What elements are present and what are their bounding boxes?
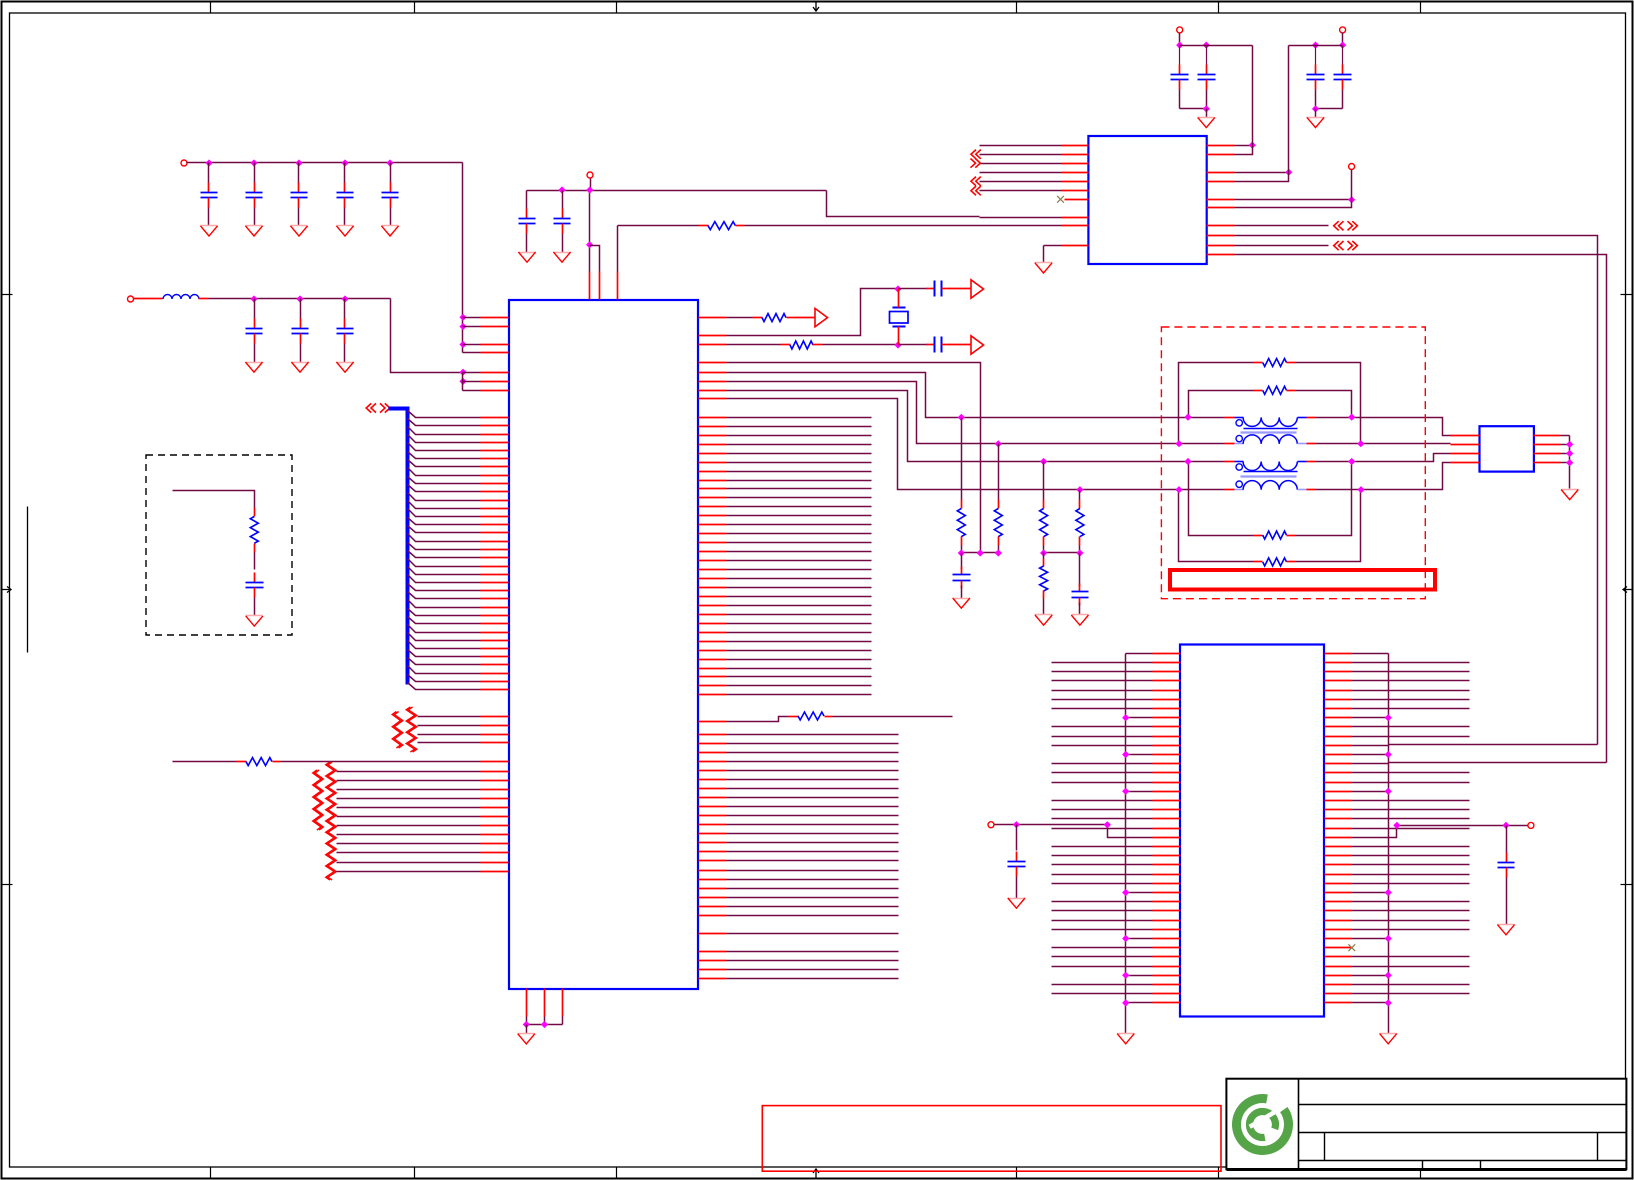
wire U1 right data bit 20 (699, 596, 872, 598)
ground below U1 (518, 1034, 535, 1044)
capacitor C2 (246, 183, 263, 208)
ground below C3 (290, 226, 307, 237)
resistor R_ser (789, 712, 833, 720)
wire cap pair2 bottom (1316, 90, 1343, 109)
U3 right pin row 38 (rail) (1325, 999, 1392, 1006)
wire RC input (173, 491, 255, 508)
U3 left pin row 1 (1052, 662, 1181, 664)
U1 right pin with series R (699, 717, 789, 722)
U3 right pin row 28 (1325, 910, 1470, 912)
wire U1 right data bit 9 (699, 497, 872, 499)
wire U1 right low bit 1 (699, 743, 899, 745)
wire U1 right data bit 27 (699, 659, 872, 661)
U2 right pin 8 long (1207, 236, 1598, 745)
junction on VDD2 rail at C8 (341, 295, 348, 302)
U3 right pin row 27 (1325, 901, 1470, 903)
U1 left pin y862 (term C) (337, 862, 509, 864)
wire U1 right low bit 7 (699, 797, 899, 799)
ground below J1 rail (1561, 490, 1578, 500)
U3 left pin row 28 (1052, 910, 1181, 912)
wire bus bit 12 to U1 pin (408, 509, 509, 517)
U2 left pin y163 (980, 163, 1089, 165)
wire C1 bottom leg (208, 208, 210, 226)
junction R_b4 left (1175, 486, 1182, 493)
U2 left pin y145 (980, 145, 1089, 147)
ground below C8 (518, 252, 535, 262)
U3 right pin row 33 (1325, 956, 1470, 958)
U1 top pin AVDD1 vertical (589, 191, 591, 300)
logo (green) (1236, 1099, 1288, 1151)
wire bus bit 10 to U1 pin (408, 493, 509, 501)
wire U1 right data bit 28 (699, 668, 872, 670)
U3 right pin row 34 (1325, 966, 1470, 968)
U2 left pin GND (1044, 246, 1089, 263)
U3 left pin row 18 (1052, 818, 1181, 820)
junction cap pair2 bottom (1312, 105, 1319, 112)
termination zigzag column C2 (326, 762, 337, 880)
junction R_b3 left (1184, 458, 1191, 465)
U1 left pin y743 (term A) (418, 742, 509, 744)
wire U1 right data bit 8 (699, 488, 872, 490)
junction U2 r3 (1285, 169, 1292, 176)
wire C1 top leg (208, 163, 210, 183)
wire AVDD terminal leg (590, 179, 592, 191)
wire crystal line to U2 (745, 225, 980, 227)
ground below C_sn (246, 616, 263, 627)
capacitor C_p1a (1171, 46, 1189, 90)
signal arrow CLKOUT (815, 308, 828, 326)
U2 right pin 9 (1207, 245, 1329, 247)
wire U1 right data bit 5 (699, 462, 872, 464)
U3 right pin row 8 (1325, 726, 1470, 728)
capacitor C_sn (246, 573, 264, 598)
wire U1 right data bit 24 (699, 632, 872, 634)
wire bus bit 13 to U1 pin (408, 518, 509, 525)
junction U3 left power cap (1013, 821, 1020, 828)
wire U1 right low bit 9 (699, 815, 899, 817)
wire U3 left power (995, 824, 1108, 826)
wire U1 right low bit 10 (699, 824, 899, 826)
junction XI node (894, 341, 901, 348)
regulator IC U2 body (1088, 136, 1206, 264)
U1 right pin TXP route (699, 373, 1225, 418)
U1 left pin y807 (term C) (337, 807, 509, 809)
wire bus bit 33 to U1 pin (408, 683, 509, 690)
capacitor C8 (519, 209, 536, 234)
U3 left pin row 27 (1052, 901, 1181, 903)
junction join t5 (1076, 549, 1083, 556)
wire bus bit 4 to U1 pin (408, 443, 509, 451)
capacitor C_l (1008, 852, 1026, 877)
U3 left pin row 30 (1052, 929, 1181, 931)
wire U1 right low bit 18 (699, 897, 899, 899)
wire C9 bottom leg (562, 234, 564, 253)
wire C2 top leg (254, 163, 256, 183)
resistor R_clk (753, 314, 795, 322)
U3 right rail (1388, 654, 1390, 1007)
U3 left pin row 10 (1052, 745, 1181, 747)
wire U1 right data bit 11 (699, 515, 872, 517)
U3 right pin row 29 (1325, 920, 1470, 922)
U1 left pin y771 (term C) (337, 771, 509, 773)
U3 right pin row 36 (1325, 984, 1470, 986)
U3 left pin row 35 (rail) (1122, 972, 1180, 979)
U3 right pin row 3 (1325, 680, 1470, 682)
border center marker arrow bottom (813, 1169, 819, 1178)
termination zigzag column A2 (406, 707, 417, 752)
U2 left pin y190 (980, 190, 1089, 192)
node U3 VDD left terminal (988, 822, 994, 828)
transformer T2 primary winding (1225, 462, 1316, 471)
J1 left pin y444 (1451, 444, 1480, 446)
U1 left pin y825 (term C) (337, 825, 509, 827)
junction U2 r1 (1249, 142, 1256, 149)
U3 right pin row 20 (power jog) (1325, 826, 1397, 838)
U3 left pin row 20 (power jog) (1108, 826, 1181, 838)
resistor R_x2 (618, 222, 745, 230)
wire L1 to caps rail (209, 298, 391, 300)
J1 right pin y435 (1534, 435, 1570, 437)
wire bus bit 0 to U1 pin (408, 411, 509, 418)
U3 right rail ground (1380, 1007, 1397, 1044)
capacitor C_t2 (1072, 584, 1089, 606)
junction TXN/R2t (995, 440, 1002, 447)
U3 right pin row 1 (1325, 662, 1470, 664)
wire VDD1 rail (187, 162, 463, 164)
termination zigzag column C1 (313, 770, 324, 830)
U1 right pin RXN route (699, 399, 1225, 490)
junction U1 gnd link 2 (541, 1021, 548, 1028)
wire bus bit 25 to U1 pin (408, 617, 509, 624)
wire U1 ground link (527, 1024, 563, 1026)
wire U1 right low bit 12 (699, 842, 899, 844)
ground below C6 (245, 362, 262, 372)
transformer T1 secondary winding (1225, 435, 1316, 444)
U1 left pin y725 (term A) (418, 725, 509, 727)
wire U1 right low bit 19 (699, 906, 899, 908)
wire cap pair2 rail (1289, 46, 1343, 173)
resistor R_t5 (vertical) (1040, 553, 1048, 599)
junction R_b2 right (1348, 414, 1355, 421)
bus entry off-page connector (366, 403, 390, 412)
wire bus bit 3 to U1 pin (408, 435, 509, 443)
junction AVDD rail at terminal (586, 186, 593, 193)
title block (1226, 1079, 1626, 1170)
wire R_clk to arrow (795, 317, 815, 319)
capacitor C_p2b (1334, 46, 1352, 90)
wire C8 bottom leg (344, 344, 346, 363)
wire bus bit 22 to U1 pin (408, 592, 509, 599)
junction join t4 (1040, 549, 1047, 556)
wire R_t5 to gnd (1043, 599, 1045, 615)
capacitor C_x2 (927, 337, 950, 353)
junction R_b3 right (1348, 458, 1355, 465)
U1 right pin CT route (699, 363, 981, 553)
wire U1 gnd drop (526, 1025, 528, 1034)
junction RXN/R4t (1076, 486, 1083, 493)
U2 left pin NC (1065, 199, 1089, 201)
wire U1 right low bit 5 (699, 779, 899, 781)
junction cap pair2 b (1339, 42, 1346, 49)
U3 left pin row 3 (1052, 680, 1181, 682)
U1 right pin XI2 (699, 344, 781, 346)
wire RXP right of T2 (1316, 454, 1451, 462)
ground below C8 (336, 362, 353, 372)
wire U3 C_r bottom leg (1506, 878, 1508, 925)
junction U1 gnd link 1 (523, 1021, 530, 1028)
wire bus bit 7 to U1 pin (408, 468, 509, 476)
wire U1 right low bit 22 (699, 933, 899, 935)
U1 left pin y798 (term C) (337, 798, 509, 800)
U3 left pin row 4 (1052, 690, 1181, 692)
resistor R_t4 (vertical) (1076, 490, 1084, 546)
ground below U2 left (1035, 263, 1053, 274)
off-page chevron U2 row2 (971, 150, 981, 159)
wire U1 right low bit 27 (699, 978, 899, 980)
U1 left pin y734 (term A) (418, 734, 509, 736)
resistor R_t1 (vertical) (957, 418, 965, 546)
U1 left pin y390 (463, 390, 509, 392)
U1 right pin CLKOUT (699, 317, 753, 319)
U2 right pin 2 (1207, 146, 1253, 155)
U3 right pin row 37 (1325, 993, 1470, 995)
junction on VDD2 rail at C6 (250, 295, 257, 302)
U3 right pin row 11 (rail) (1325, 751, 1392, 758)
wire C4 top leg (344, 163, 346, 183)
transformer T1 core (1241, 429, 1298, 433)
wire U3 C_r top leg (1506, 826, 1508, 853)
capacitor C_p1b (1198, 46, 1216, 90)
wire bus bit 28 to U1 pin (408, 641, 509, 649)
capacitor C_p2a (1307, 46, 1325, 90)
resistor R_t3 (vertical) (1040, 462, 1048, 546)
junction cap pair1 b (1203, 42, 1210, 49)
U3 left pin row 13 (1052, 772, 1181, 774)
U3 right pin row 31 (rail) (1325, 935, 1392, 942)
wire U1 right low bit 16 (699, 879, 899, 881)
ground below C_r (1497, 925, 1514, 935)
ground below C_t (953, 598, 970, 608)
wire U1 right data bit 29 (699, 676, 872, 678)
wire U1 right low bit 25 (699, 960, 899, 962)
wire bus bit 5 to U1 pin (408, 452, 509, 459)
junction AVDD rail at C8 (558, 186, 565, 193)
wire bus bit 14 to U1 pin (408, 526, 509, 533)
junction R_b4 right (1357, 486, 1364, 493)
capacitor C3 (291, 183, 308, 208)
wire U1 right low bit 14 (699, 860, 899, 862)
wire U1 right data bit 22 (699, 614, 872, 616)
U3 left pin row 12 (1052, 763, 1181, 765)
wire U1 right data bit 30 (699, 685, 872, 687)
J1 left pin y453 (1451, 453, 1480, 455)
U3 left pin row 32 (1052, 947, 1181, 949)
U3 right pin row 18 (1325, 818, 1470, 820)
annotation dashed box (RC snubber) (146, 455, 292, 635)
wire J1 shield rail (1569, 436, 1571, 489)
U2 right pin 10 long (1207, 255, 1607, 763)
U3 right pin row 35 (rail) (1325, 972, 1392, 979)
ground below C5 (381, 226, 398, 237)
wire U1 right low bit 4 (699, 770, 899, 772)
wire group B vertical (462, 373, 464, 391)
wire Rt3/Rt4 join (1044, 546, 1080, 553)
highlight red rectangle (1170, 570, 1435, 590)
wire U1 right data bit 6 (699, 471, 872, 473)
wire pair1 gnd drop (1206, 109, 1208, 118)
wire C_t to gnd (961, 586, 963, 599)
junction U3 left power jog (1104, 821, 1111, 828)
wire U1 right low bit 24 (699, 951, 899, 953)
U1 left pin y352 (463, 352, 509, 354)
wire U1 right data bit 4 (699, 453, 872, 455)
wire bus bit 9 to U1 pin (408, 485, 509, 492)
ground below C_l (1008, 898, 1026, 908)
U1 left pin y834 (term C) (337, 834, 509, 836)
ground below C4 (336, 226, 353, 237)
wire bus bit 18 to U1 pin (408, 559, 509, 567)
wire U1 right low bit 15 (699, 870, 899, 872)
junction join t1 (958, 549, 965, 556)
U1 bottom pin GND2 (544, 989, 546, 1025)
wire cap pair1 bottom (1180, 90, 1207, 109)
border center marker arrow right (1623, 587, 1632, 593)
wire cap pair1 rail (1180, 46, 1253, 146)
U3 left pin row 23 (1052, 864, 1181, 866)
wire XO to C_x1 (899, 288, 928, 290)
bus (thick blue) (389, 407, 408, 685)
U1 left pin y843 (term C) (337, 843, 509, 845)
wire RXN right of T2 (1316, 463, 1451, 490)
transformer T1 phase dot primary (1236, 420, 1242, 426)
ground below C_t2 (1071, 615, 1088, 626)
wire U1 right low bit 2 (699, 752, 899, 754)
U3 right pin row 15 (rail) (1325, 788, 1392, 795)
U3 right pin row 5 (1325, 699, 1470, 701)
U3 left pin row 15 (rail) (1122, 788, 1180, 795)
wire C_x2 to arrow (949, 344, 971, 346)
wire U1 right low bit 6 (699, 788, 899, 790)
wire U3 C_l top leg (1016, 825, 1018, 851)
resistor R_b2 loop (1189, 386, 1352, 417)
U3 right pin row 6 (1325, 708, 1470, 710)
U1 left pin y871 (term C) (337, 871, 509, 873)
U3 right pin row 12 long up2 (1325, 763, 1389, 765)
wire C7 top leg (300, 299, 302, 319)
junction RXP/R3t (1040, 458, 1047, 465)
U3 right pin row 25 (1325, 883, 1470, 885)
wire MDC from left (173, 761, 237, 763)
wire U1 right data bit 12 (699, 524, 872, 526)
main IC U1 (PHY controller) body (509, 300, 698, 989)
junction TXP/R1t (958, 414, 965, 421)
U3 right pin row 9 (1325, 736, 1470, 738)
U3 right pin row 4 (1325, 690, 1470, 692)
wire U3 right long corner 1 (1389, 744, 1598, 746)
crystal Y1 (890, 289, 909, 345)
U2 left pin row9 wire (980, 225, 1089, 227)
U2 right pin 6 (1207, 200, 1352, 208)
junction R_b1 left (1175, 440, 1182, 447)
node U3 VDD right terminal (1528, 822, 1534, 828)
wire bus bit 32 to U1 pin (408, 675, 509, 682)
wire C4 bottom leg (344, 208, 346, 226)
wire R_mdc to U1 (281, 761, 509, 763)
wire U1 right data bit 0 (699, 417, 872, 419)
node VDD3 terminal (1177, 27, 1183, 46)
U1 left pin y317 (459, 314, 508, 321)
wire U1 right low bit 17 (699, 888, 899, 890)
ground below C7 (291, 362, 308, 372)
resistor R_mdc (237, 758, 281, 766)
U3 left pin row 34 (1052, 966, 1181, 968)
ethernet jack J1 body (1480, 426, 1534, 471)
wire C2 bottom leg (254, 208, 256, 226)
wire U1 right data bit 25 (699, 641, 872, 643)
junction U3 right power jog (1393, 822, 1400, 829)
junction U1 top pin jog (586, 241, 593, 248)
wire bus bit 2 to U1 pin (408, 427, 509, 435)
U3 right pin row 13 (1325, 772, 1470, 774)
wire U1 right data bit 15 (699, 551, 872, 553)
signal arrow XI (971, 336, 984, 354)
U3 right pin row 14 (1325, 782, 1470, 784)
U3 left pin row 33 (1052, 956, 1181, 958)
U3 right pin row 16 (1325, 800, 1470, 802)
U2 left pin y181 (980, 181, 1089, 183)
stray vertical section line (27, 507, 29, 653)
wire U1 right low bit 0 (699, 734, 899, 736)
wire C3 top leg (298, 163, 300, 183)
wire C5 bottom leg (390, 208, 392, 226)
capacitor C4 (337, 183, 354, 208)
wire XI to C_x2 (899, 344, 928, 346)
wire bus bit 29 to U1 pin (408, 650, 509, 657)
junction cap pair2 a (1312, 42, 1319, 49)
node VDD2 terminal (128, 296, 134, 302)
wire U1 right data bit 31 (699, 694, 872, 696)
wire TXN right of T1 (1316, 443, 1451, 445)
wire U1 right data bit 7 (699, 480, 872, 482)
U3 right pin row 2 (1325, 671, 1470, 673)
U3 right pin row 30 (1325, 929, 1470, 931)
wire bus bit 24 to U1 pin (408, 609, 509, 616)
transformer T2 secondary winding (1225, 481, 1316, 490)
wire U1 right data bit 2 (699, 435, 872, 437)
wire U1 right data bit 23 (699, 623, 872, 625)
wire bus bit 21 to U1 pin (408, 584, 509, 591)
wire C_x1 to arrow (949, 288, 971, 290)
border center marker arrow left (2, 587, 11, 593)
border center marker arrow top (813, 2, 819, 11)
wire U1 right data bit 26 (699, 650, 872, 652)
wire bus bit 23 to U1 pin (408, 600, 509, 608)
U1 bottom pin GND3 (562, 989, 564, 1025)
U3 left pin row 25 (1052, 883, 1181, 885)
wire bus bit 8 to U1 pin (408, 477, 509, 484)
wire U3 right power (1397, 825, 1528, 827)
resistor R_xi (781, 341, 823, 349)
capacitor C_r (1498, 853, 1515, 878)
wire U1 right low bit 26 (699, 969, 899, 971)
U2 right pin 4 (1207, 173, 1289, 182)
off-page connector U2 r7 (1334, 221, 1358, 230)
U2 left pin y154 (980, 154, 1089, 156)
U2 left pin y172 (980, 172, 1089, 174)
transformer T2 phase dot secondary (1236, 481, 1242, 487)
capacitor C7 (292, 319, 309, 344)
U2 left pin row8 wire (980, 217, 1089, 219)
